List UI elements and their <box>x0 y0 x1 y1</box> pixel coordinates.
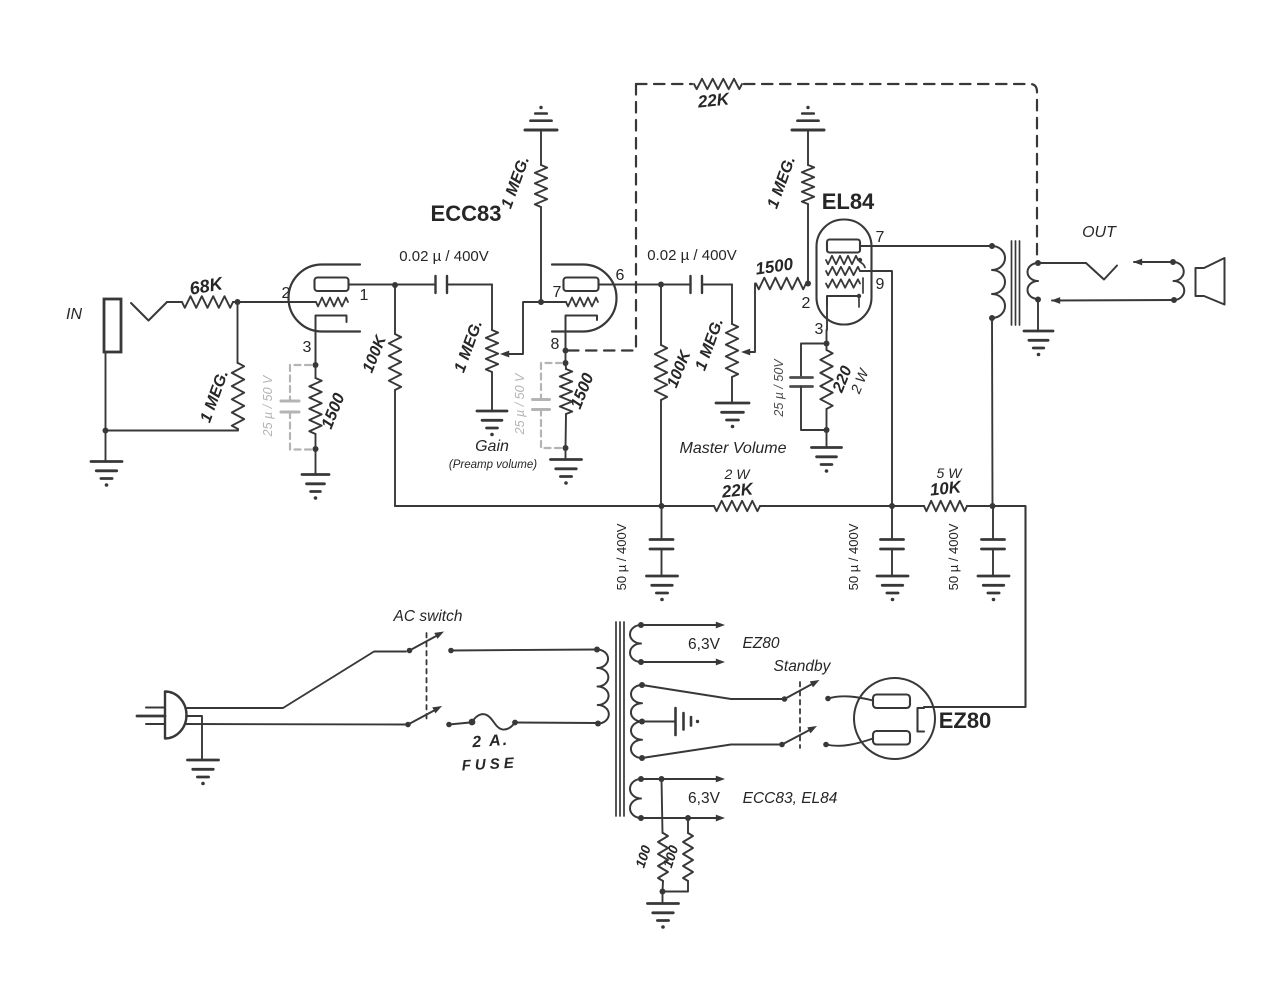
node OT primary top <box>989 243 995 249</box>
wire cathode EL84 down <box>826 305 828 330</box>
wire EZ80 cathode output <box>918 706 923 708</box>
wire feedback dashed top-right <box>744 84 1037 261</box>
pentode EL84 grid g2 (pin 9) <box>826 267 860 275</box>
wire standby to EZ80 plate 1 <box>828 696 873 700</box>
wire mains earth <box>186 716 202 760</box>
wire HT center tap <box>642 721 675 723</box>
triode V1b cathode (pin 8) <box>566 316 598 350</box>
wire 220 leads <box>826 344 828 351</box>
transformer OT core <box>1011 241 1013 325</box>
node rail cap3 <box>990 503 996 509</box>
capacitor C-50u filter 1 plates <box>650 538 673 541</box>
capacitor C-25u EL84 plates <box>791 376 813 379</box>
capacitor C-25u bypass 2 plates <box>533 398 550 401</box>
fuse F1 2A <box>469 719 476 726</box>
wire cathode1 leads <box>315 365 317 378</box>
svg-text:100K: 100K <box>360 332 391 375</box>
node rail cap2 <box>889 503 895 509</box>
wire plate V1b to node <box>599 284 690 286</box>
svg-text:0.02 µ / 400V: 0.02 µ / 400V <box>647 247 737 264</box>
ground above grid leak EL84 <box>792 129 824 132</box>
node plate1 junction <box>392 282 398 288</box>
AC plug prongs <box>146 707 165 709</box>
wire feedback dashed left <box>568 84 636 351</box>
capacitor C-0.02 second: right lead <box>704 284 733 286</box>
svg-text:1500: 1500 <box>318 390 349 432</box>
svg-text:50 µ / 400V: 50 µ / 400V <box>614 523 629 590</box>
potentiometer MasterVolume element <box>726 324 738 377</box>
pentode EL84 envelope <box>817 220 872 325</box>
node heater2 bottom <box>638 815 644 821</box>
capacitor C-50u filter 2: top lead <box>891 506 893 539</box>
AC switch bottom pole <box>405 722 411 728</box>
AC switch top pole <box>407 648 413 654</box>
wire cathode1 to ground <box>315 449 317 474</box>
node HT top <box>639 682 645 688</box>
capacitor C-25u EL84: left branch <box>801 344 827 378</box>
triode V1a grid (pin 2) <box>316 298 348 307</box>
node speaker bottom <box>1171 297 1177 303</box>
wire cathode EL84 to ground <box>826 430 828 448</box>
capacitor C-0.02 first plates <box>434 276 436 293</box>
svg-text:100: 100 <box>633 843 654 870</box>
svg-text:1 MEG.: 1 MEG. <box>693 316 728 373</box>
capacitor C-50u filter 1: bottom lead <box>661 549 663 576</box>
ground gain pot <box>477 410 507 413</box>
svg-text:50 µ / 400V: 50 µ / 400V <box>946 523 961 590</box>
wire mains top to switch <box>186 652 406 709</box>
node grid1 junction <box>235 299 241 305</box>
node heater2 top <box>638 776 644 782</box>
transformer PT primary winding <box>597 649 609 723</box>
potentiometer MasterVolume: top lead <box>731 285 733 325</box>
node HT bottom <box>639 755 645 761</box>
wire 1MEG bottom to jack sleeve <box>105 429 238 431</box>
svg-text:Gain: Gain <box>475 438 509 455</box>
ground cathode EL84 <box>812 446 842 449</box>
ground cathode1 <box>302 473 329 476</box>
capacitor C-25u bypass 2 (ghost) dashes <box>541 363 562 400</box>
transformer PT winding 6.3V EZ80 <box>630 625 641 662</box>
speaker voice coil <box>1173 262 1184 300</box>
wire 100K second to rail <box>660 400 662 506</box>
wire speaker bottom with arrow <box>1052 299 1174 302</box>
node cathode V1b feedback junction <box>563 348 569 354</box>
ground input jack <box>91 460 122 463</box>
capacitor C-50u filter 1: top lead <box>661 506 663 539</box>
node grid EL84 junction <box>805 281 811 287</box>
triode V1b envelope <box>552 265 617 332</box>
node cathode1 bottom <box>313 446 319 452</box>
svg-text:6: 6 <box>616 267 625 284</box>
pentode EL84 cathode (pin 3) <box>827 296 857 305</box>
wire feedback dashed top-left <box>636 83 692 85</box>
svg-text:EZ80: EZ80 <box>742 635 779 652</box>
capacitor C-25u bypass 1 (ghost) dashes <box>290 365 311 401</box>
svg-text:25 µ / 50 V: 25 µ / 50 V <box>513 372 527 435</box>
wire standby to EZ80 plate 2 <box>826 739 873 746</box>
resistor R-220 cathode <box>820 350 832 409</box>
resistor R-1MEG grid EL84 <box>802 165 814 204</box>
wire B+ rail right <box>924 506 1026 707</box>
potentiometer Gain element <box>486 330 498 372</box>
wire OUT jack <box>1038 262 1086 264</box>
svg-text:68K: 68K <box>188 273 226 299</box>
wire jack sleeve down <box>105 352 107 461</box>
node cathode EL84 bottom <box>824 427 830 433</box>
svg-text:1 MEG.: 1 MEG. <box>765 154 800 211</box>
node cathode1 top <box>313 362 319 368</box>
resistor R-100K second: top lead <box>660 285 662 346</box>
speaker horn <box>1196 258 1225 305</box>
arrow speaker top <box>1133 259 1142 266</box>
wire humdinger to ground <box>662 892 664 904</box>
wire switch to PT primary top <box>451 650 597 651</box>
wire heater EZ80 bottom <box>641 661 717 663</box>
pentode EL84 plate (pin 7) <box>827 240 860 253</box>
svg-text:FUSE: FUSE <box>461 755 518 775</box>
node jack sleeve junction <box>103 428 109 434</box>
svg-text:EZ80: EZ80 <box>939 708 992 733</box>
wire fuse to PT primary bottom <box>515 722 597 725</box>
svg-text:IN: IN <box>66 306 82 323</box>
capacitor C-50u filter 3 plates <box>982 538 1005 541</box>
triode V1a envelope <box>289 265 361 332</box>
arrow speaker bottom <box>1051 297 1060 304</box>
ground mains earth <box>188 759 219 762</box>
ground HT center tap (sideways) <box>674 708 677 735</box>
wire cathode V1b short <box>565 351 567 364</box>
resistor R-68K <box>182 296 233 308</box>
resistor R-10K 5W rail <box>924 501 967 511</box>
svg-text:1: 1 <box>360 287 369 304</box>
svg-text:ECC83, EL84: ECC83, EL84 <box>743 790 838 807</box>
node humdinger top <box>659 776 665 782</box>
svg-text:7: 7 <box>876 229 885 246</box>
node AC switch top right <box>448 648 454 654</box>
wire plate V1a to node <box>349 284 393 286</box>
pentode EL84 grid g3 <box>826 256 858 264</box>
AC switch dashed link <box>426 633 428 722</box>
node grid V1b junction <box>538 299 544 305</box>
ground cathode2 <box>551 458 582 461</box>
pentode EL84 grid g1 (pin 2) <box>826 279 860 287</box>
pentode EL84 internal lead <box>862 278 864 293</box>
svg-text:Master Volume: Master Volume <box>680 440 787 457</box>
potentiometer Gain: top lead <box>491 285 493 331</box>
wire grid V1b <box>541 301 566 303</box>
node PT primary top <box>594 647 600 653</box>
transformer PT winding 6.3V heaters <box>630 779 641 818</box>
ground filter cap 2 <box>877 575 908 578</box>
transformer OT primary winding <box>992 246 1005 318</box>
resistor R-1MEG input: top lead <box>237 302 239 363</box>
resistor R-1MEG grid V1b: top lead <box>540 130 542 165</box>
wire OT primary bottom to rail <box>991 318 994 506</box>
rectifier EZ80 cathode <box>918 708 925 732</box>
svg-text:25 µ / 50 V: 25 µ / 50 V <box>261 374 275 437</box>
wire speaker top with arrow <box>1134 261 1173 263</box>
potentiometer Gain wiper wire <box>507 302 541 354</box>
transformer PT core <box>615 622 617 816</box>
svg-text:25 µ / 50V: 25 µ / 50V <box>772 358 786 418</box>
svg-text:22K: 22K <box>696 89 732 111</box>
node PT primary bottom <box>595 721 601 727</box>
potentiometer MasterVolume: bottom lead <box>731 377 733 403</box>
resistor R-1500 grid EL84 <box>756 278 806 290</box>
svg-text:1 MEG.: 1 MEG. <box>198 368 233 425</box>
svg-text:Standby: Standby <box>774 658 832 675</box>
wire heater2 bottom <box>641 817 717 819</box>
node standby bottom right <box>823 742 829 748</box>
svg-text:EL84: EL84 <box>822 189 875 214</box>
triode V1b plate (pin 6) <box>564 278 599 292</box>
wire HT bottom to standby <box>642 745 780 759</box>
ground humdinger <box>648 902 679 905</box>
AC plug body <box>165 692 187 739</box>
resistor R-1MEG grid EL84: top lead <box>807 130 809 165</box>
triode V1a cathode (pin 3) <box>316 316 347 365</box>
wire 100K first to rail <box>394 390 396 506</box>
wire grid leak EL84 down <box>807 204 809 284</box>
standby switch top pole <box>782 696 788 702</box>
svg-text:ECC83: ECC83 <box>431 201 502 226</box>
resistor R-1500 first stage <box>309 378 321 434</box>
capacitor C-25u bypass 1 plates <box>281 400 299 403</box>
capacitor C-50u filter 3: top lead <box>992 506 994 539</box>
svg-text:10K: 10K <box>929 477 964 499</box>
potentiometer Gain wiper arrow <box>500 351 509 358</box>
input jack J1 <box>104 299 121 352</box>
svg-text:3: 3 <box>303 339 312 356</box>
potentiometer MasterVolume wiper wire <box>748 284 755 353</box>
node OT secondary bottom <box>1035 297 1041 303</box>
ground master volume <box>716 402 749 405</box>
rectifier EZ80 envelope <box>854 678 935 759</box>
node standby top right <box>825 696 831 702</box>
node humdinger junction <box>660 889 666 895</box>
node heater EZ80 bottom <box>638 659 644 665</box>
svg-text:1500: 1500 <box>567 370 598 412</box>
resistor R-100 humdinger 1 <box>662 779 663 833</box>
capacitor C-50u filter 3: bottom lead <box>992 549 994 576</box>
capacitor C-50u filter 2: bottom lead <box>891 549 893 576</box>
triode V1b grid (pin 7) <box>566 298 598 307</box>
svg-text:50 µ / 400V: 50 µ / 400V <box>846 523 861 590</box>
resistor R-22K 2W rail <box>714 501 760 511</box>
svg-text:OUT: OUT <box>1082 224 1117 241</box>
svg-text:(Preamp volume): (Preamp volume) <box>449 459 537 471</box>
svg-text:6,3V: 6,3V <box>688 790 721 807</box>
node cathode V1b bypass junction <box>563 360 569 366</box>
node plate2 junction <box>658 282 664 288</box>
rectifier EZ80 plate 1 <box>873 695 910 709</box>
svg-text:1 MEG.: 1 MEG. <box>499 154 534 211</box>
input jack tip contact <box>131 302 167 321</box>
resistor R-1MEG grid V1b <box>535 165 547 207</box>
svg-text:7: 7 <box>553 284 562 301</box>
capacitor C-25u EL84: bottom lead <box>801 387 827 431</box>
standby switch dashed link <box>799 682 801 748</box>
node speaker top <box>1170 259 1176 265</box>
svg-text:6,3V: 6,3V <box>688 636 721 653</box>
wire heater2 top <box>641 778 717 780</box>
ground filter cap 3 <box>978 575 1009 578</box>
wire switch to fuse <box>449 723 470 725</box>
wire cathode2 to ground <box>565 448 567 460</box>
svg-text:8: 8 <box>551 336 560 353</box>
svg-text:0.02 µ / 400V: 0.02 µ / 400V <box>399 248 489 265</box>
node cathode2 bottom <box>563 445 569 451</box>
node cathode EL84 top <box>824 341 830 347</box>
svg-text:AC switch: AC switch <box>393 608 463 625</box>
ground OT secondary <box>1024 330 1053 333</box>
ground filter cap 1 <box>647 575 678 578</box>
transformer PT HT winding <box>631 685 642 758</box>
resistor R-100K second <box>655 345 667 400</box>
svg-text:100K: 100K <box>664 347 695 390</box>
node rail cap1 <box>659 503 665 509</box>
resistor R-1500 second stage <box>560 369 572 414</box>
wire grid leak V1b down <box>540 207 542 302</box>
capacitor C-50u filter 2 plates <box>881 538 904 541</box>
wire cathode2 leads <box>565 363 568 369</box>
node heater EZ80 top <box>638 622 644 628</box>
ground above grid leak V1b <box>525 129 557 132</box>
wire mains bottom to switch <box>186 723 405 726</box>
svg-text:1500: 1500 <box>754 254 795 278</box>
transformer OT secondary winding <box>1028 263 1039 299</box>
node HT center tap <box>639 719 645 725</box>
node humdinger bottom <box>685 815 691 821</box>
capacitor C-0.02 first: right lead <box>449 284 493 286</box>
resistor R-100K first <box>389 334 401 390</box>
resistor R-100 humdinger 2 <box>687 818 689 833</box>
standby switch bottom pole <box>779 742 785 748</box>
wire grid V1a <box>233 301 316 303</box>
svg-text:1 MEG.: 1 MEG. <box>452 318 487 375</box>
wire 68K left lead <box>167 301 182 303</box>
wire B+ rail left <box>395 505 714 507</box>
potentiometer MasterVolume wiper arrow <box>741 349 750 356</box>
triode V1a plate (pin 1) <box>315 278 349 292</box>
svg-text:9: 9 <box>876 276 885 293</box>
node AC switch bottom right <box>446 722 452 728</box>
wire OT secondary to ground <box>1037 300 1039 332</box>
svg-text:2: 2 <box>802 295 811 312</box>
resistor R-1MEG input <box>232 363 244 429</box>
node OT secondary top <box>1035 260 1041 266</box>
svg-text:22K: 22K <box>720 479 756 501</box>
node OT primary bottom <box>989 315 995 321</box>
rectifier EZ80 plate 2 <box>873 731 910 745</box>
capacitor C-0.02 second plates <box>689 276 691 293</box>
svg-text:100: 100 <box>660 843 681 870</box>
svg-text:3: 3 <box>815 321 824 338</box>
resistor R-100K first: top lead <box>394 285 396 334</box>
wire heater EZ80 top <box>641 624 717 626</box>
potentiometer Gain: bottom lead <box>491 372 493 411</box>
capacitor C-0.02 first: left lead <box>395 284 434 286</box>
svg-text:2 A.: 2 A. <box>471 732 510 752</box>
wire screen g2 to supply <box>860 271 892 506</box>
wire B+ rail middle <box>760 505 924 507</box>
wire plate EL84 to OT <box>860 245 992 247</box>
wire HT top to standby <box>642 685 782 699</box>
resistor R-22K feedback <box>694 79 742 89</box>
OUT jack tip contact <box>1086 263 1117 280</box>
